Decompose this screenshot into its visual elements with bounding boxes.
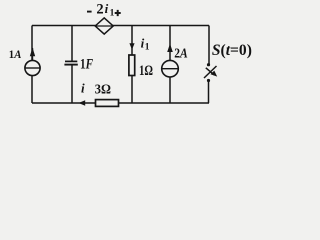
svg-text:1Ω: 1Ω (139, 63, 153, 79)
wire left branch (31, 26, 33, 104)
svg-text:3Ω: 3Ω (95, 82, 111, 97)
svg-text:i: i (105, 1, 109, 16)
label plus of dependent source (115, 10, 121, 16)
svg-text:i: i (81, 81, 85, 96)
svg-text:2: 2 (96, 1, 103, 17)
wire right branch upper (208, 26, 210, 66)
switch S(t=0) (204, 63, 217, 82)
wire capacitor branch upper (71, 26, 73, 62)
svg-text:1: 1 (110, 8, 115, 18)
current source 1A (25, 48, 40, 76)
wire right branch lower (208, 80, 210, 103)
svg-text:1F: 1F (80, 57, 93, 73)
wire 2A branch (169, 26, 171, 104)
label minus of dependent source (87, 11, 92, 13)
svg-text:1A: 1A (9, 47, 22, 61)
current arrow i1 (129, 43, 134, 49)
wire below R1 (131, 76, 133, 104)
wire 1-ohm branch (131, 26, 133, 56)
resistor R2 3-ohm (horizontal box) (96, 100, 119, 107)
current source 2A (162, 44, 179, 77)
wire top rail (32, 25, 209, 27)
capacitor C1 1F (64, 61, 77, 64)
wire bottom rail (32, 102, 209, 104)
current arrow i (bottom rail, pointing left) (79, 100, 86, 106)
svg-text:1: 1 (145, 42, 150, 52)
dependent voltage source 2i1 (diamond) (95, 18, 113, 34)
svg-text:2A: 2A (174, 46, 188, 61)
wire capacitor branch lower (71, 65, 73, 103)
resistor R1 1-ohm (vertical box) (129, 55, 135, 76)
svg-text:S(t=0): S(t=0) (212, 42, 252, 59)
